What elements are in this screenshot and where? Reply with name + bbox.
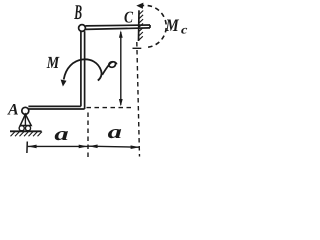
- dimension a (left) line: [28, 145, 88, 147]
- dashed extension line below C (vertical): [137, 42, 140, 157]
- svg-text:c: c: [181, 23, 188, 37]
- tick on extension line below C: [133, 47, 142, 49]
- ground line at A: [10, 130, 42, 132]
- svg-text:a: a: [54, 124, 69, 145]
- svg-text:C: C: [124, 8, 134, 27]
- pin leg inside triangle: [24, 115, 26, 126]
- svg-text:B: B: [74, 0, 82, 24]
- dashed extension line from corner (horizontal): [87, 107, 134, 109]
- pin circle at A: [22, 107, 29, 114]
- member BC (top horizontal bar, double line): [86, 25, 151, 29]
- moment Mc arrowhead: [136, 3, 143, 9]
- member B-corner (vertical bar, double line): [81, 31, 85, 109]
- label b (cursive, tilted): [102, 62, 116, 75]
- moment M arc: [64, 59, 102, 80]
- dimension a (right) line: [89, 146, 140, 147]
- dimension b top arrowhead: [119, 30, 123, 37]
- svg-text:M: M: [46, 53, 60, 72]
- clamped support line at C: [138, 10, 141, 41]
- extension tick at A for dimension a: [26, 142, 28, 154]
- support triangle at A: [20, 114, 31, 125]
- svg-text:A: A: [7, 101, 19, 118]
- rollers under support A: [19, 126, 24, 131]
- dimension b bottom arrowhead: [119, 99, 123, 106]
- pin joint B: [79, 25, 86, 32]
- dimension a (right) arrowheads: [89, 145, 98, 149]
- svg-text:M: M: [165, 15, 180, 35]
- svg-text:a: a: [108, 122, 123, 143]
- moment Mc dashed arc: [142, 5, 166, 47]
- hatching of support at C: [139, 11, 144, 41]
- ground hatching at A: [11, 132, 43, 137]
- dimension b line: [120, 32, 122, 105]
- member A-corner (bottom horizontal bar, double line): [28, 106, 84, 109]
- moment M arrowhead: [61, 80, 67, 87]
- dashed extension line below corner (vertical): [87, 113, 89, 158]
- dimension a (left) arrowheads: [28, 145, 37, 149]
